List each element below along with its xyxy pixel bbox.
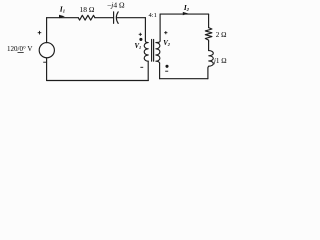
current arrow I1 — [59, 15, 65, 19]
wire capacitor to transformer primary — [117, 17, 146, 19]
voltage source Vs 120∠0° V — [39, 43, 54, 58]
current arrow I2 — [183, 12, 188, 15]
wire transformer secondary top lead — [159, 14, 161, 41]
dot transformer primary polarity — [139, 38, 142, 41]
capacitor C -j4Ω curved plate — [116, 12, 118, 24]
wire top left segment — [47, 17, 79, 19]
capacitor C -j4Ω flat plate — [113, 12, 115, 24]
dot transformer secondary polarity — [165, 65, 168, 68]
label secondary minus — [165, 70, 168, 72]
wire right branch top lead — [208, 14, 210, 28]
transformer core line right — [153, 40, 155, 62]
resistor R 2Ω — [205, 28, 212, 42]
wire 2Ω to j1Ω — [208, 41, 210, 50]
wire inductor bottom lead — [207, 66, 210, 79]
svg-text:V2: V2 — [163, 40, 171, 47]
svg-text:V1: V1 — [134, 43, 141, 50]
transformer core line left — [151, 40, 153, 62]
wire transformer secondary bottom lead — [159, 63, 161, 79]
svg-text:4:1: 4:1 — [149, 12, 157, 19]
svg-text:I2: I2 — [183, 4, 190, 12]
svg-text:I1: I1 — [59, 4, 65, 13]
wire primary bottom segment — [47, 80, 149, 82]
wire source top lead — [46, 18, 48, 43]
svg-text:j1 Ω: j1 Ω — [213, 57, 227, 65]
wire secondary bottom segment — [160, 78, 208, 80]
label source value 120∠0° V — [7, 45, 32, 53]
svg-text:2 Ω: 2 Ω — [216, 31, 227, 39]
label primary minus — [140, 66, 143, 68]
wire source bottom lead — [46, 58, 48, 81]
svg-text:–j4 Ω: –j4 Ω — [106, 0, 124, 9]
wire transformer primary top lead — [144, 18, 146, 41]
label primary plus — [139, 33, 142, 36]
wire transformer primary bottom lead — [147, 61, 149, 80]
svg-text:18 Ω: 18 Ω — [80, 5, 95, 14]
wire secondary top segment — [160, 13, 209, 15]
inductor L j1Ω — [209, 51, 214, 67]
transformer primary winding — [144, 41, 148, 61]
transformer secondary winding — [156, 41, 160, 63]
label source minus — [43, 61, 46, 63]
wire resistor to capacitor — [95, 17, 114, 19]
label secondary plus — [164, 31, 167, 34]
label source plus — [38, 31, 42, 35]
resistor R 18Ω — [78, 15, 95, 20]
